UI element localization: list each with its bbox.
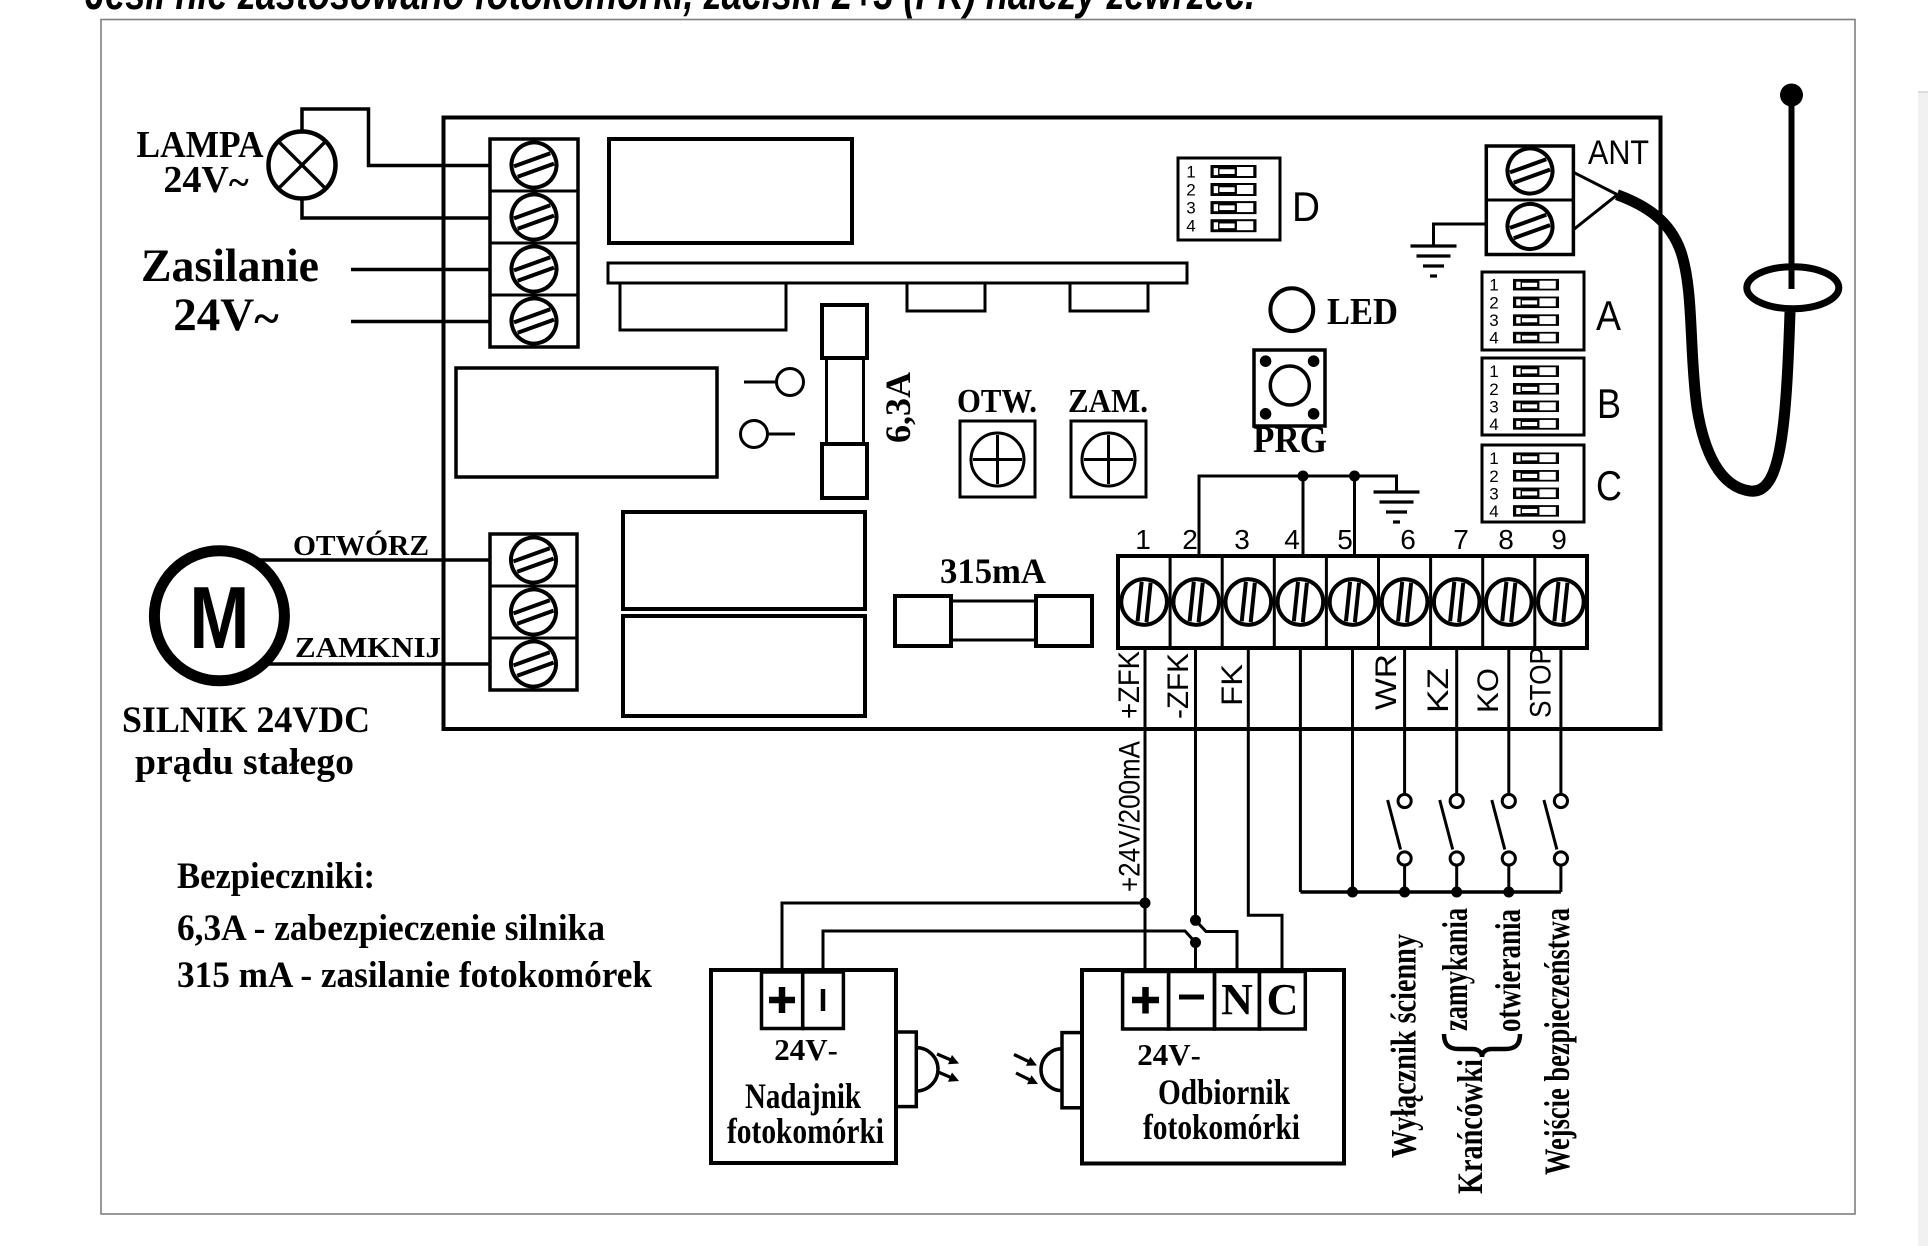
odbiornik lens — [1062, 1033, 1082, 1108]
junction bus t5 — [1347, 887, 1358, 898]
svg-text:24V~: 24V~ — [163, 159, 248, 204]
heatsink tab mid — [907, 283, 985, 311]
svg-text:8: 8 — [1498, 524, 1514, 555]
svg-text:4: 4 — [1489, 502, 1498, 521]
junction bus kz — [1451, 887, 1462, 898]
screw mid — [505, 583, 563, 641]
svg-text:24V-: 24V- — [1137, 1037, 1200, 1072]
switch KZ — [1450, 794, 1463, 807]
svg-text:2: 2 — [1489, 293, 1498, 312]
wire lamp bottom to terminal 2 — [302, 199, 490, 219]
wire FK to C — [1248, 648, 1282, 972]
svg-text:1: 1 — [1135, 524, 1151, 555]
lamp LAMPA 24V~ — [269, 132, 336, 199]
svg-text:Wyłącznik ścienny: Wyłącznik ścienny — [1384, 934, 1424, 1158]
heatsink tab left — [620, 283, 786, 330]
plus symbol — [769, 997, 795, 1004]
LED — [1270, 288, 1313, 331]
svg-text:KO: KO — [1472, 668, 1505, 713]
screw zamknij — [505, 635, 563, 693]
svg-text:3: 3 — [1489, 484, 1498, 503]
wire -ZFK down — [1194, 648, 1197, 920]
svg-text:N: N — [1221, 975, 1253, 1024]
odbiornik terminal N — [1215, 972, 1260, 1030]
svg-text:OTW.: OTW. — [957, 383, 1037, 420]
wire prg bus — [1199, 476, 1397, 556]
power terminal block (4 screws) — [490, 139, 578, 347]
wire KZ down — [1455, 648, 1458, 795]
wire lamp top to terminal 1 — [302, 109, 490, 166]
junction -ZFK top — [1190, 915, 1201, 926]
wire terminal4 down — [1299, 648, 1302, 892]
wire ant triangle — [1574, 172, 1618, 229]
photocell NC lever — [1196, 920, 1238, 971]
svg-text:D: D — [1292, 183, 1320, 230]
motor terminal block (3 screws) — [490, 534, 577, 690]
wire ant ground — [1434, 224, 1487, 246]
svg-text:ZAMKNIJ: ZAMKNIJ — [295, 633, 441, 664]
svg-text:Wejście bezpieczeństwa: Wejście bezpieczeństwa — [1537, 908, 1577, 1175]
screw 2 — [505, 188, 563, 246]
svg-text:24V~: 24V~ — [173, 289, 279, 345]
odbiornik terminal + — [1123, 972, 1169, 1030]
junction bus ko — [1503, 887, 1514, 898]
screw 3 — [505, 240, 563, 298]
svg-text:4: 4 — [1186, 217, 1195, 236]
svg-text:WR: WR — [1370, 654, 1403, 710]
screw t6 — [1380, 577, 1430, 627]
svg-text:OTWÓRZ: OTWÓRZ — [293, 531, 429, 562]
svg-text:1: 1 — [1489, 449, 1498, 468]
light arrow 1 (in) — [1014, 1055, 1031, 1063]
svg-text:fotokomórki: fotokomórki — [727, 1111, 884, 1151]
test point 1 — [777, 369, 804, 396]
relay box 2 — [623, 616, 865, 716]
screw 4 — [505, 292, 563, 350]
svg-text:1: 1 — [1489, 362, 1498, 381]
wire bus to terminal 5 — [1353, 476, 1356, 556]
screw t3 — [1223, 577, 1273, 627]
ANT terminal block — [1486, 146, 1573, 255]
svg-text:ZAM.: ZAM. — [1068, 383, 1148, 420]
antenna coax cable — [1617, 195, 1790, 491]
test point 2 — [741, 421, 768, 448]
DIP switch C — [1482, 445, 1584, 522]
junction +24V — [1140, 898, 1151, 909]
screw t4 — [1275, 577, 1325, 627]
wire 24V~ to terminal 4 — [351, 320, 490, 324]
svg-text:315mA: 315mA — [940, 551, 1046, 591]
svg-text:A: A — [1596, 292, 1621, 339]
svg-text:1: 1 — [1186, 163, 1195, 182]
svg-text:315 mA - zasilanie fotokomórek: 315 mA - zasilanie fotokomórek — [177, 955, 652, 996]
PRG button — [1254, 350, 1325, 426]
svg-text:B: B — [1597, 380, 1621, 427]
screw t2 — [1171, 577, 1221, 627]
svg-text:7: 7 — [1453, 524, 1469, 555]
odbiornik terminal C — [1259, 972, 1305, 1030]
odbiornik terminal - — [1169, 972, 1215, 1030]
svg-text:SILNIK 24VDC: SILNIK 24VDC — [122, 700, 370, 741]
component box left-mid — [456, 368, 717, 477]
wire to nadajnik + — [782, 903, 1145, 972]
fuse 6,3A (vertical) — [822, 305, 867, 358]
light arrow 1 (out) — [937, 1054, 953, 1061]
nadajnik box — [711, 970, 896, 1163]
nadajnik terminal + — [762, 972, 803, 1029]
motor M — [154, 551, 284, 681]
heatsink tab right — [1070, 283, 1148, 311]
svg-text:PRG: PRG — [1253, 419, 1327, 461]
svg-text:STOP: STOP — [1525, 647, 1558, 718]
svg-text:3: 3 — [1489, 397, 1498, 416]
odbiornik box — [1082, 970, 1344, 1164]
svg-text:2: 2 — [1489, 380, 1498, 399]
screw t1 — [1119, 577, 1169, 627]
junction bus-4 — [1298, 471, 1309, 482]
screw 1 — [505, 136, 563, 194]
svg-text:M: M — [189, 568, 249, 667]
svg-text:otwierania: otwierania — [1488, 909, 1528, 1032]
relay box 1 — [623, 512, 865, 609]
screw ant 2 — [1501, 198, 1559, 256]
svg-text:KZ: KZ — [1422, 668, 1455, 713]
screw ant 1 — [1501, 142, 1559, 200]
light arrow 2 (out) — [937, 1072, 953, 1079]
wire WR down — [1403, 648, 1406, 795]
screw t8 — [1484, 577, 1534, 627]
svg-text:9: 9 — [1551, 524, 1567, 555]
switch common bus — [1300, 890, 1561, 894]
heatsink bar — [608, 263, 1187, 283]
wire nadajnik | to NC contact — [823, 931, 1196, 972]
svg-text:4: 4 — [1489, 415, 1498, 434]
plus symbol (odb) — [1132, 997, 1159, 1004]
wire KO down — [1507, 648, 1510, 795]
svg-text:Nadajnik: Nadajnik — [745, 1076, 861, 1116]
svg-text:3: 3 — [1489, 311, 1498, 330]
component box (transformer) — [609, 139, 852, 243]
screw t9 — [1536, 577, 1586, 627]
screw t7 — [1432, 577, 1482, 627]
svg-text:6: 6 — [1400, 524, 1416, 555]
bar symbol — [821, 989, 826, 1011]
svg-text:2: 2 — [1489, 467, 1498, 486]
svg-text:LED: LED — [1327, 291, 1398, 333]
switch WR — [1398, 794, 1411, 807]
svg-text:zamykania: zamykania — [1435, 908, 1475, 1031]
svg-text:+24V/200mA: +24V/200mA — [1114, 741, 1147, 892]
wire bus to terminal 4 — [1302, 476, 1305, 556]
minus symbol (odb) — [1179, 995, 1204, 1000]
svg-text:FK: FK — [1216, 664, 1249, 706]
svg-text:6,3A - zabezpieczenie silnika: 6,3A - zabezpieczenie silnika — [177, 908, 605, 949]
junction -ZFK bottom — [1190, 937, 1201, 948]
svg-text:C: C — [1267, 975, 1299, 1024]
antenna loop — [1747, 267, 1839, 309]
svg-text:ANT: ANT — [1588, 134, 1649, 172]
nadajnik lens — [896, 1032, 916, 1107]
DIP switch D — [1178, 158, 1280, 240]
junction bus-5 — [1349, 471, 1360, 482]
PCB board outline — [444, 118, 1661, 730]
wire +ZFK down — [1144, 648, 1147, 972]
svg-text:Odbiornik: Odbiornik — [1158, 1072, 1290, 1112]
antenna rod — [1780, 84, 1803, 107]
ground symbol (ant) — [1411, 244, 1457, 247]
svg-text:1: 1 — [1489, 276, 1498, 295]
DIP switch B — [1482, 358, 1584, 435]
wire terminal5 down — [1351, 648, 1354, 892]
terminal row 1-9 — [1118, 556, 1587, 648]
svg-text:2: 2 — [1182, 524, 1198, 555]
svg-text:Krańcówki: Krańcówki — [1450, 1059, 1490, 1194]
svg-text:Zasilanie: Zasilanie — [141, 240, 319, 292]
wire Zasilanie to terminal 3 — [351, 268, 490, 272]
screw otwórz — [505, 531, 563, 589]
svg-text:3: 3 — [1186, 199, 1195, 218]
wire ZAMKNIJ — [266, 662, 490, 666]
brace krańcówki — [1444, 1034, 1520, 1057]
switch KO — [1502, 794, 1515, 807]
svg-text:4: 4 — [1284, 524, 1300, 555]
svg-text:Bezpieczniki:: Bezpieczniki: — [177, 856, 375, 897]
junction bus wr — [1399, 887, 1410, 898]
svg-text:Jeśli nie zastosowano fotokomó: Jeśli nie zastosowano fotokomórki, zacis… — [85, 0, 1255, 19]
svg-text:6,3A: 6,3A — [878, 372, 918, 443]
svg-text:fotokomórki: fotokomórki — [1143, 1107, 1300, 1147]
DIP switch A — [1482, 272, 1584, 350]
svg-text:4: 4 — [1489, 329, 1498, 348]
screw t5 — [1327, 577, 1377, 627]
svg-text:24V-: 24V- — [774, 1032, 837, 1067]
nadajnik terminal | — [803, 972, 844, 1029]
ground symbol (prg bus) — [1374, 490, 1420, 493]
switch STOP — [1554, 794, 1567, 807]
svg-text:5: 5 — [1337, 524, 1353, 555]
svg-text:-ZFK: -ZFK — [1162, 653, 1195, 719]
svg-text:3: 3 — [1234, 524, 1250, 555]
svg-text:2: 2 — [1186, 181, 1195, 200]
svg-text:+ZFK: +ZFK — [1113, 651, 1146, 719]
svg-text:prądu stałego: prądu stałego — [135, 742, 354, 783]
svg-text:C: C — [1596, 462, 1622, 509]
wire STOP down — [1559, 648, 1562, 795]
light arrow 2 (in) — [1016, 1073, 1032, 1081]
wire OTWÓRZ — [260, 558, 490, 562]
